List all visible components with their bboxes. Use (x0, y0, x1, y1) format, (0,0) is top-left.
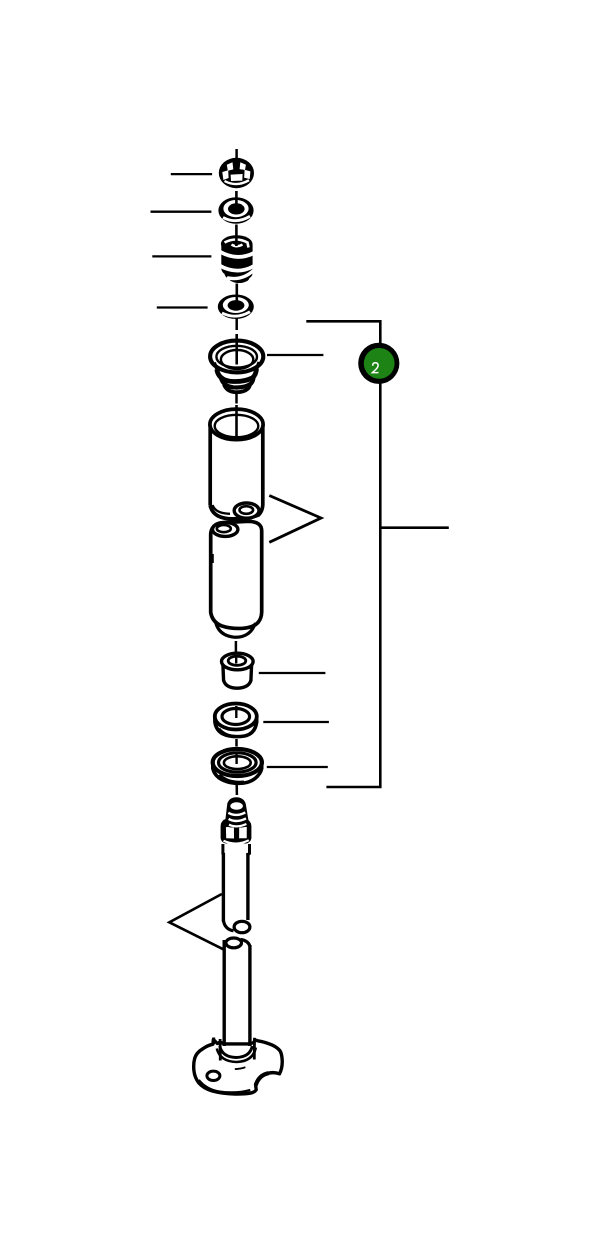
part1 flange lock nut (219, 158, 254, 188)
leader line part5 cup (267, 354, 323, 356)
part7 lower spacer tube (211, 521, 262, 637)
part6 upper spacer tube (210, 405, 263, 519)
part11 lower tube (224, 938, 250, 1049)
leader line part3 spring (152, 255, 211, 257)
leader line part9 washer (263, 721, 329, 723)
leader line part10 seal (267, 766, 328, 768)
leader line part4 washer (157, 306, 208, 308)
leader line part1 nut (171, 173, 212, 175)
pointer arrow left (169, 894, 223, 949)
part11 shock absorber threaded stud (225, 797, 248, 827)
pointer arrow right (269, 496, 321, 543)
part4 washer (218, 284, 254, 319)
part11 piston rod upper (223, 853, 250, 933)
callout bracket group 2 (306, 321, 449, 787)
centerline dashes (236, 149, 237, 795)
part3 coil spring (220, 225, 255, 284)
part11 base plate (194, 1038, 283, 1095)
part2 washer (218, 191, 253, 224)
part11 hex collar (221, 819, 252, 844)
part9 washer cup (215, 704, 257, 737)
part11 neck ring (223, 844, 250, 858)
part5 spring seat cup (210, 334, 263, 392)
part10 seal washer (213, 749, 262, 783)
part8 bushing (222, 653, 254, 688)
leader line part2 washer (151, 211, 212, 213)
callout balloon 2 (358, 343, 399, 384)
leader line part8 bushing (259, 672, 326, 674)
